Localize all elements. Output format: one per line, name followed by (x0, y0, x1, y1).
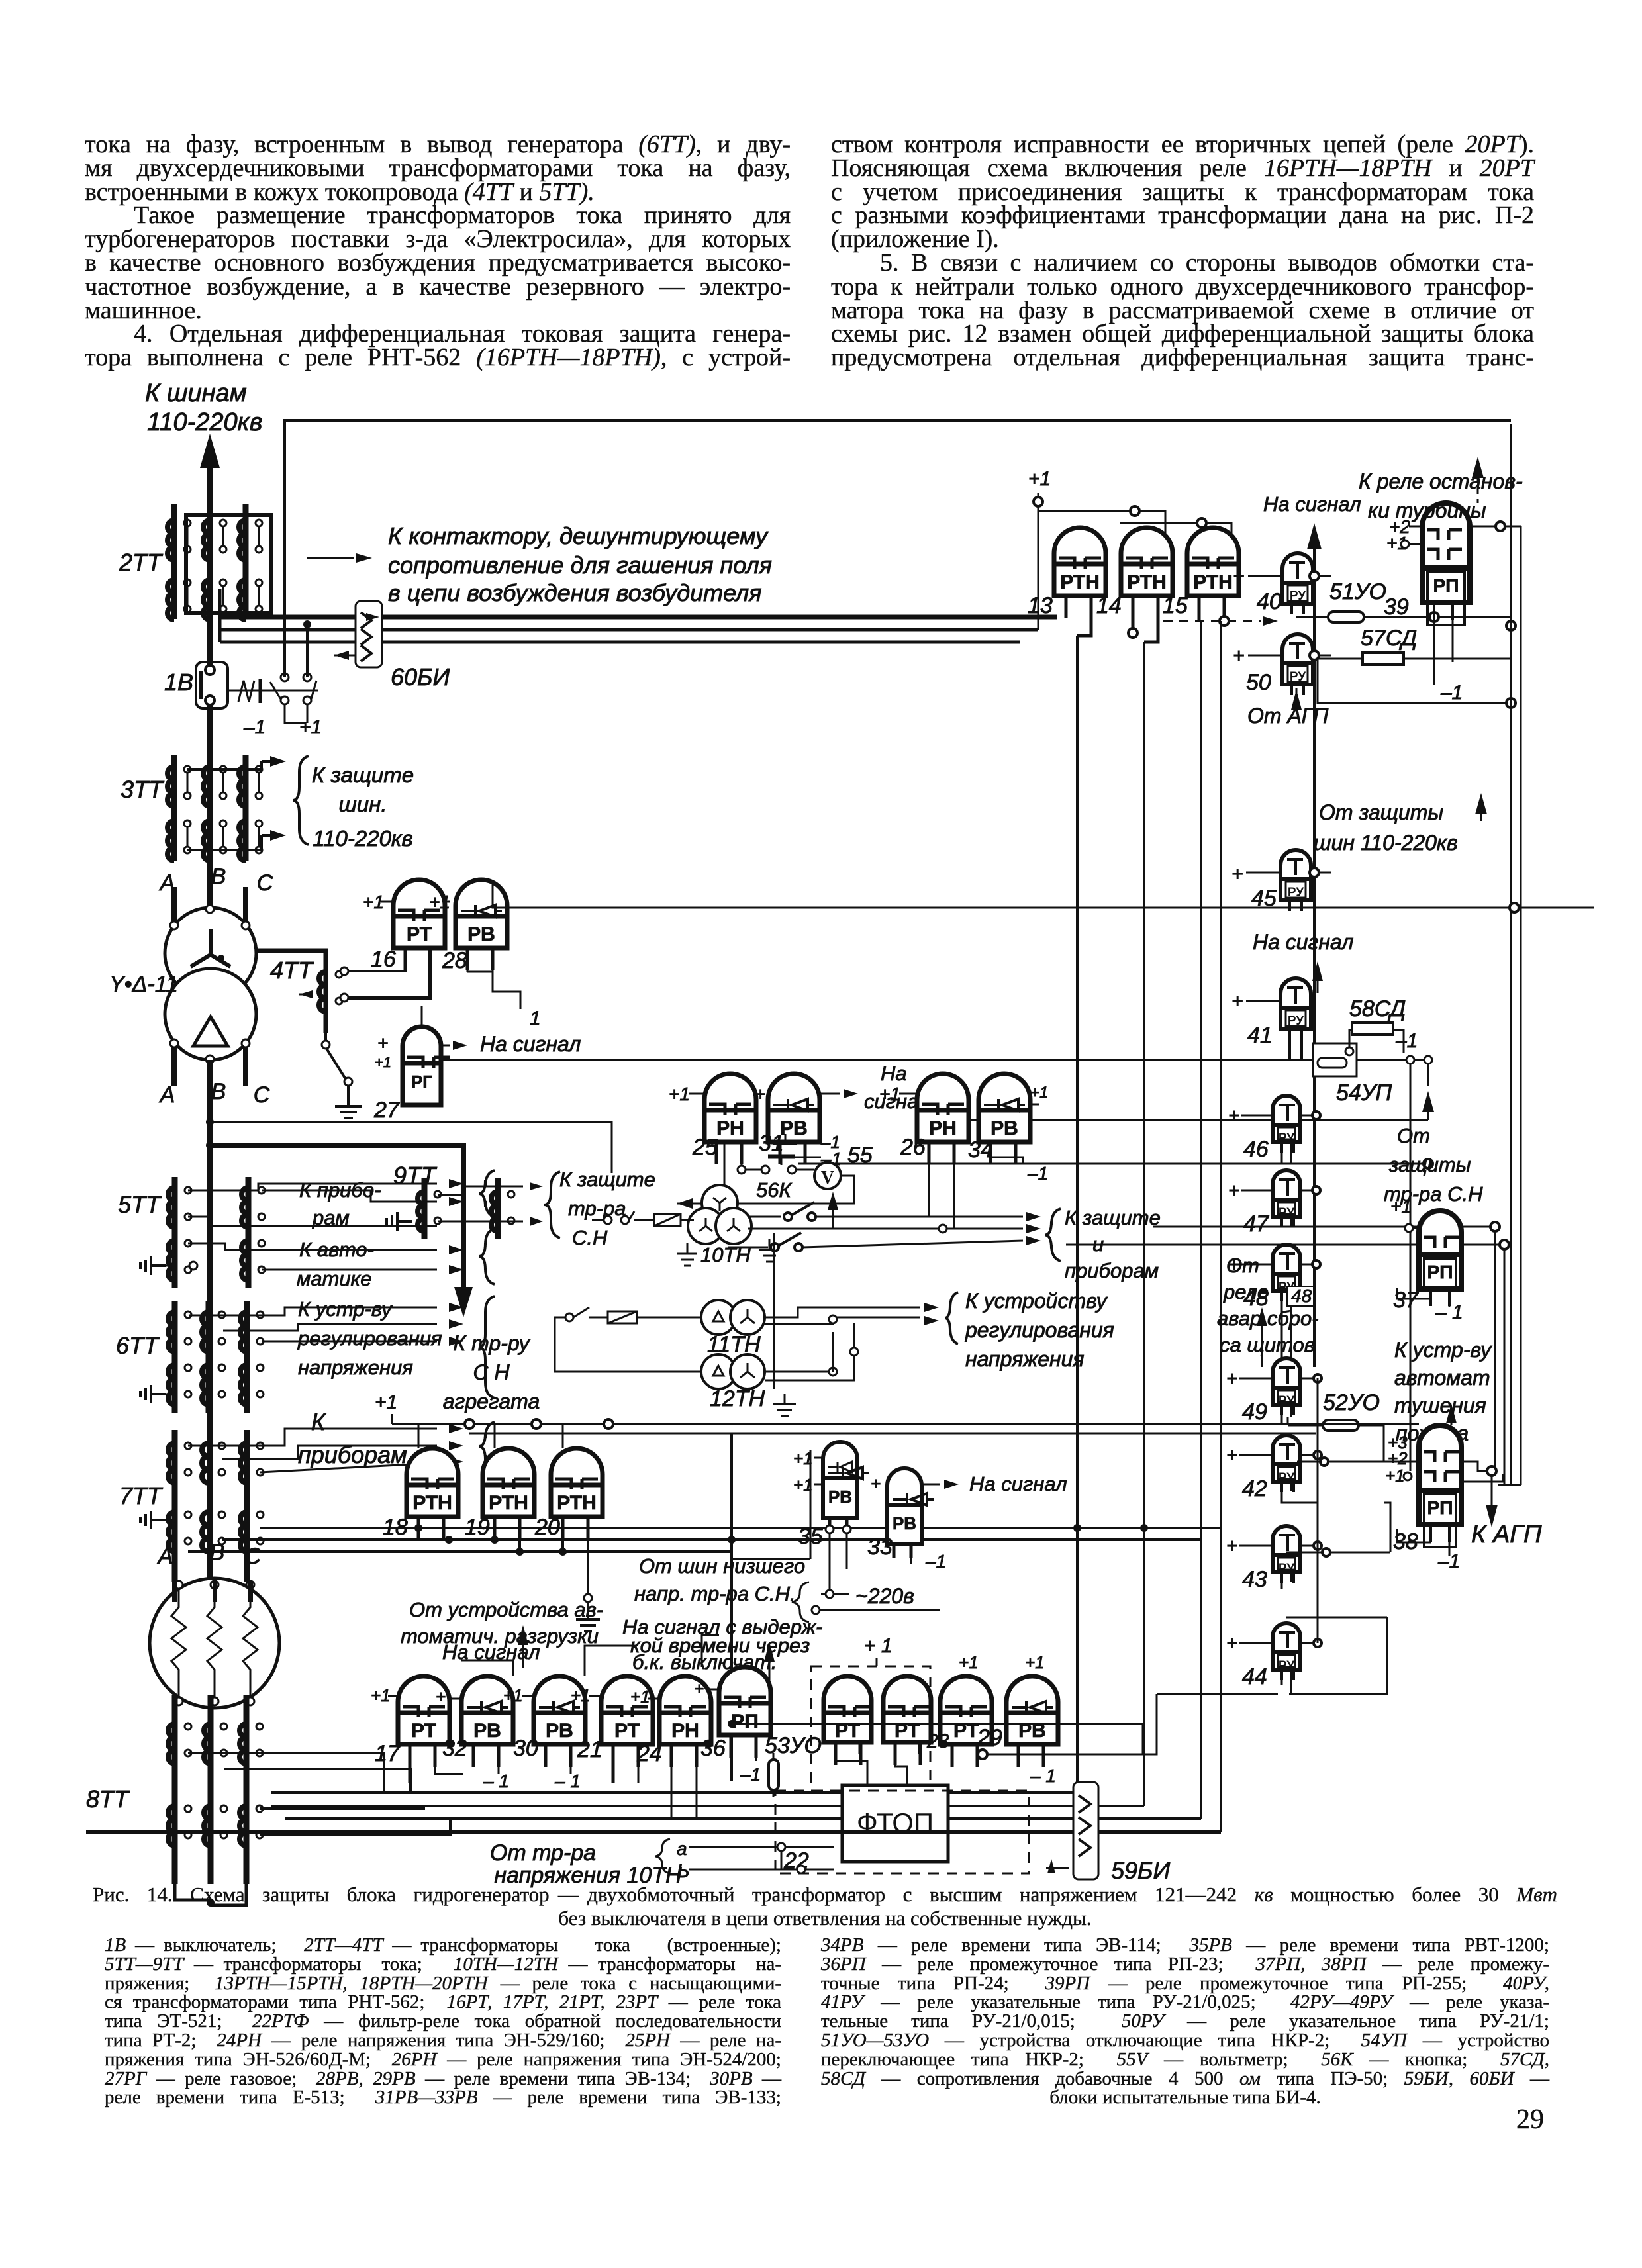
svg-text:РП: РП (1427, 1497, 1453, 1518)
label 6TT (116, 1332, 160, 1359)
label 20 (534, 1515, 560, 1540)
svg-text:тушения: тушения (1394, 1394, 1486, 1417)
relay RU 48 (1273, 1245, 1300, 1301)
svg-text:К прибо-: К прибо- (299, 1178, 381, 1202)
arrow: К АГП down (1486, 1476, 1498, 1527)
svg-text:–1: –1 (1395, 1030, 1418, 1052)
label 12TN (710, 1386, 765, 1411)
label -1 (RP38) (1437, 1550, 1460, 1572)
wire: rail y1371 (1510, 903, 1519, 912)
label: От устройства ав-томатич. разгрузки (401, 1598, 603, 1648)
label: От реле авар сброса щитов (1217, 1254, 1319, 1356)
label: На (сигнал) 33 (969, 1472, 1067, 1495)
relay RN 25 (704, 1074, 756, 1164)
svg-text:+1: +1 (1028, 468, 1051, 490)
label: К АГП (1471, 1521, 1542, 1548)
label 47 (1243, 1211, 1269, 1237)
wire: RN26 legs (929, 1142, 954, 1229)
svg-text:К защите: К защите (559, 1168, 655, 1191)
svg-text:+ 1: + 1 (864, 1635, 893, 1657)
svg-text:напряжения: напряжения (965, 1347, 1085, 1371)
label 10TN (700, 1243, 751, 1266)
svg-text:приборам: приборам (298, 1441, 407, 1468)
svg-text:РВ: РВ (467, 923, 495, 945)
brace: к устр-ву регулирования (479, 1296, 495, 1398)
wire: RV35 box (732, 1450, 810, 1559)
resistor 57SD (1363, 653, 1404, 665)
label + (RU40) (1233, 565, 1331, 587)
svg-text:РУ: РУ (1288, 886, 1304, 900)
brace 220v (792, 1582, 809, 1622)
transformer 11TN (701, 1300, 765, 1335)
label 22 (783, 1848, 809, 1873)
wire: double rail (392, 1419, 1419, 1433)
test block 60BI (356, 601, 382, 667)
label 24 (636, 1741, 662, 1766)
label: К контактору, дешунтирующему (388, 522, 769, 549)
label 50 (1246, 670, 1271, 695)
label 14 (1096, 593, 1122, 618)
wire: RTN14 legs (1128, 596, 1158, 642)
relay RV 31 (768, 1074, 820, 1164)
label 25 (692, 1135, 718, 1160)
label: К защите шин 110-220кв (312, 763, 414, 851)
svg-text:52УО: 52УО (1323, 1390, 1380, 1415)
label +1 (RV34) (1030, 1084, 1048, 1104)
relay RU 46 (1273, 1096, 1300, 1153)
svg-text:РН: РН (671, 1720, 699, 1742)
wire: RU43 legs (1282, 1572, 1291, 1589)
label 33 (867, 1535, 893, 1560)
svg-text:29: 29 (977, 1725, 1002, 1750)
device 54UP (1313, 1030, 1404, 1076)
svg-text:33: 33 (867, 1535, 893, 1560)
relay RTN 18 (407, 1448, 458, 1539)
label: сопротивление для гашения поля (388, 551, 772, 579)
wire: 10TN secondary b (748, 1224, 1041, 1233)
label 51UO (1329, 579, 1386, 604)
relay RN 24 (659, 1676, 711, 1767)
brace: к защите и приборам (1045, 1209, 1061, 1261)
svg-text:48: 48 (1291, 1286, 1312, 1306)
svg-text:+: + (1226, 1535, 1238, 1557)
svg-text:С.Н: С.Н (572, 1226, 608, 1249)
label 5TT (118, 1191, 162, 1218)
label + (RG) (375, 1033, 391, 1070)
label 36 (700, 1736, 726, 1761)
label + (RU48) (1228, 1254, 1320, 1276)
current transformer 2TT (168, 504, 271, 620)
wire: generator phase stubs (175, 1582, 250, 1602)
wire: RV31 to na signal (820, 1089, 858, 1098)
wire: bottom row legs (410, 1744, 756, 1817)
wire: RU44 legs (1282, 1670, 1291, 1694)
label +1 (RT16) (363, 892, 393, 912)
relay RTN 20 (551, 1448, 603, 1539)
relay RT b (22RTF) (883, 1676, 931, 1765)
svg-text:К АГП: К АГП (1471, 1521, 1542, 1548)
wire: RU41 legs to rail (1290, 1029, 1302, 1060)
svg-text:43: 43 (1242, 1567, 1267, 1592)
wire: RN25 legs (724, 1142, 746, 1186)
relay RG 27 (403, 1027, 450, 1105)
wire: 8TT bottom hooks (175, 1884, 246, 1907)
svg-text:РТН: РТН (557, 1492, 597, 1514)
label 43 (1242, 1567, 1267, 1592)
svg-text:8ТТ: 8ТТ (86, 1785, 130, 1813)
arrow: left from 25 (677, 1198, 724, 1209)
wire: na signal rail y1758 (798, 1159, 1433, 1168)
svg-text:В: В (211, 1079, 226, 1104)
wire: RV31 legs (780, 1142, 821, 1157)
brace: к автоматике (479, 1229, 495, 1284)
svg-text:Y•Δ-11: Y•Δ-11 (109, 972, 178, 997)
wire: 52UO row (1288, 1417, 1384, 1462)
svg-text:50: 50 (1246, 670, 1271, 695)
filter-relay 22RTF dashed box (811, 1666, 930, 1791)
svg-text:шин 110-220кв: шин 110-220кв (1314, 831, 1458, 855)
label 32 (442, 1736, 467, 1761)
arrow: от защиты тр-ра (1422, 1091, 1434, 1120)
wire: bottom rails right (948, 1793, 1201, 1819)
label 52UO (1323, 1390, 1380, 1415)
svg-text:На сигнал: На сигнал (969, 1472, 1067, 1495)
wire: HV bus vertical (207, 463, 213, 908)
svg-text:110-220кв: 110-220кв (313, 826, 412, 851)
current transformer 9TT (418, 1178, 543, 1239)
svg-text:44: 44 (1242, 1664, 1267, 1689)
label +1 (rail) (375, 1392, 397, 1424)
relay RU 42 (1273, 1435, 1300, 1492)
svg-text:+: + (1231, 863, 1243, 885)
label 37 (1393, 1288, 1419, 1313)
wire: 29 node (728, 1694, 1157, 1759)
svg-text:13: 13 (1028, 593, 1053, 618)
label +1 row (371, 1679, 704, 1707)
resistor 58SD (1352, 1023, 1393, 1035)
label: К прибо-рам (299, 1178, 381, 1229)
label +1 (RN25) (669, 1084, 704, 1104)
relay RT 23 (940, 1676, 992, 1767)
wire: trio y932 (220, 615, 1057, 620)
label 23 (926, 1730, 949, 1752)
label 26 (900, 1135, 926, 1160)
svg-text:шин.: шин. (338, 792, 387, 816)
svg-text:30: 30 (513, 1736, 538, 1761)
arrow: на сигнал 41 (1312, 961, 1323, 993)
svg-text:регулирования: регулирования (965, 1318, 1114, 1342)
svg-text:2ТТ: 2ТТ (119, 549, 164, 576)
svg-text:К шинам: К шинам (145, 379, 247, 407)
wire: от защиты шин arrow (1475, 793, 1487, 821)
label ~220v (855, 1584, 914, 1608)
label + (RU50) (1233, 645, 1331, 667)
wire: RV28 right leg (467, 948, 520, 1009)
wire: RTN18 legs (414, 1517, 456, 1544)
wire: long vertical x1814 (1200, 621, 1202, 1819)
label 39 (wire) (1384, 594, 1409, 620)
svg-text:К устр-ву: К устр-ву (1394, 1338, 1492, 1362)
svg-text:16: 16 (371, 947, 396, 972)
brace: к защите тр-ра СН (544, 1172, 560, 1238)
node at 60BI (303, 620, 311, 628)
svg-text:От шин низшего: От шин низшего (639, 1554, 805, 1578)
label: К защите и приборам (1065, 1206, 1161, 1282)
label +1 (RN26) (879, 1084, 917, 1104)
wire: RTN14 top loop (1120, 518, 1231, 564)
arrow 59BI (1046, 1859, 1069, 1873)
wire: 7TT secondary3 (188, 1550, 732, 1553)
wire: rail y1880 (1066, 1244, 1419, 1246)
relay RV 28 (456, 880, 507, 970)
svg-text:РУ: РУ (1290, 589, 1306, 603)
transformer phase stubs bottom (170, 1039, 250, 1086)
relay RT 16 (393, 880, 445, 970)
wire: rail y2443 (1286, 1617, 1387, 1619)
device FTOP (842, 1785, 948, 1862)
label 3TT (121, 776, 165, 803)
label: К приборам (7TT) (298, 1408, 407, 1468)
relay RP 37 (1419, 1211, 1461, 1306)
svg-text:41: 41 (1247, 1023, 1273, 1048)
svg-text:РТН: РТН (412, 1492, 452, 1514)
svg-text:–1: –1 (243, 716, 266, 738)
label: К устр-ву автомат тушения (37) (1394, 1338, 1492, 1445)
svg-text:–1: –1 (740, 1764, 761, 1785)
svg-text:40: 40 (1257, 589, 1282, 614)
label -1 (RP39) (1440, 682, 1463, 704)
svg-text:От АГП: От АГП (1247, 704, 1329, 728)
svg-text:+: + (1233, 645, 1245, 667)
switch to 10TN (592, 1211, 694, 1226)
label: От тр-ра напряжения 10ТН (490, 1840, 682, 1888)
label: На сигнал (31) (864, 1062, 930, 1113)
label: К устройству регулирования напряжения (2) (965, 1289, 1114, 1371)
label +1 (RP37) (1390, 1196, 1419, 1232)
svg-text:На сигнал: На сигнал (1253, 930, 1353, 954)
label 7TT (119, 1482, 164, 1509)
label: К реле останов- ки турбины (1359, 469, 1523, 522)
label -1 (55) (773, 1132, 840, 1152)
svg-text:–1: –1 (925, 1551, 946, 1572)
svg-text:РТН: РТН (1127, 571, 1167, 593)
label + (RU41) (1231, 990, 1280, 1012)
svg-text:+: + (1226, 1368, 1238, 1390)
svg-text:24: 24 (636, 1741, 662, 1766)
label +1 (22RTF) (864, 1635, 893, 1666)
relay RU 43 (1273, 1526, 1300, 1583)
label 46 (1243, 1137, 1269, 1162)
wire: voltmeter loop (720, 1176, 854, 1207)
svg-text:Ь: Ь (677, 1860, 690, 1882)
svg-text:РТН: РТН (1060, 571, 1100, 593)
svg-text:+1: +1 (1030, 1084, 1048, 1102)
wire: row tops (461, 1635, 719, 1676)
svg-text:– 1: – 1 (554, 1771, 581, 1791)
fuse 51UO (1320, 612, 1372, 622)
svg-text:32: 32 (442, 1736, 467, 1761)
ground (12TN) (773, 1394, 796, 1416)
wire: RV33 to na signal (922, 1480, 959, 1489)
label 59BI (1111, 1857, 1170, 1884)
arrow: bus to 110-220kV buses (200, 434, 220, 470)
wire: long rail y1695 (206, 1118, 1428, 1173)
svg-text:45: 45 (1251, 886, 1277, 911)
svg-text:тр-ра: тр-ра (568, 1197, 626, 1220)
wire: right verticals top (1510, 424, 1512, 1486)
wire: trio y970 (220, 589, 1020, 642)
wire: long vertical x1844 (1220, 621, 1222, 1832)
contact -1 (270, 673, 306, 723)
svg-text:54УП: 54УП (1336, 1080, 1392, 1106)
svg-text:6ТТ: 6ТТ (116, 1332, 160, 1359)
wire: RU43 out (1300, 1542, 1322, 1550)
svg-text:26: 26 (900, 1135, 926, 1160)
current transformer 4TT (319, 971, 342, 1047)
label +1 (1B) (299, 716, 322, 738)
wire: RU44 out (1300, 1639, 1322, 1647)
wire: RP39 legs down (1434, 602, 1453, 685)
relay RU 44 (1273, 1623, 1300, 1680)
wire: 51UO row (1296, 612, 1516, 630)
svg-text:+: + (1233, 565, 1245, 587)
svg-text:РВ: РВ (893, 1513, 916, 1533)
svg-text:55: 55 (847, 1143, 873, 1168)
wire: 10TN secondary (748, 1202, 1041, 1221)
wire: RV34 legs (990, 1142, 1023, 1164)
relay RTN 14 (1121, 528, 1173, 618)
dashed box 22 (775, 1791, 1029, 1873)
svg-text:+1: +1 (299, 716, 322, 738)
label +3+2+1 (RP38) (1385, 1433, 1412, 1486)
relay RT 21 (601, 1676, 653, 1767)
svg-text:1В: 1В (164, 669, 193, 696)
label: От защиты тр-ра СН (1384, 1124, 1483, 1205)
svg-text:+1: +1 (375, 1392, 397, 1413)
wire: RP38 contacts (1461, 1462, 1521, 1485)
svg-text:На сигнал: На сигнал (1263, 493, 1361, 516)
wire: rail y2208 (1297, 1458, 1419, 1466)
wire: 3TT outputs (187, 756, 286, 850)
breaker 1B (196, 619, 228, 908)
svg-text:+1: +1 (1385, 1466, 1405, 1486)
svg-text:~220в: ~220в (855, 1584, 914, 1608)
label + (RU47) (1228, 1180, 1320, 1202)
relay RP 39 (1422, 503, 1470, 625)
relay RP 38 (1419, 1425, 1461, 1547)
svg-text:5ТТ: 5ТТ (118, 1191, 162, 1218)
svg-text:+1: +1 (571, 1685, 591, 1705)
label 53UO (765, 1733, 822, 1758)
label -1 (58SD) (1395, 1030, 1418, 1052)
label 18 (383, 1515, 408, 1540)
label 1 (RV28 leg) (530, 1008, 541, 1029)
ground (RTN legs) (576, 1594, 600, 1631)
svg-text:К защите: К защите (312, 763, 414, 787)
svg-text:21: 21 (577, 1737, 603, 1762)
svg-text:РУ: РУ (1290, 670, 1306, 684)
relay RT 17 (398, 1676, 450, 1767)
label + (RU42) (1226, 1444, 1273, 1466)
current transformer 7TT upper (168, 1424, 463, 1582)
svg-text:От тр-ра: От тр-ра (490, 1840, 596, 1866)
spring symbol M (238, 679, 260, 703)
label a b (655, 1838, 690, 1882)
current transformer 3TT (168, 755, 262, 861)
relay RTN 13 (1054, 528, 1106, 618)
arrow: RP38 up (1446, 1403, 1457, 1425)
wire: vertical x1990 (1317, 1378, 1319, 1643)
svg-text:+1: +1 (375, 1054, 391, 1070)
relay RV 29 (1006, 1676, 1058, 1767)
svg-text:напр. тр-ра С.Н.: напр. тр-ра С.Н. (634, 1582, 796, 1605)
wire: RP38 legs (1397, 1525, 1449, 1556)
svg-text:РП: РП (1427, 1262, 1453, 1282)
label: К устр-ву регулирования напряжения (297, 1298, 442, 1379)
label +1 (RV28) (429, 892, 450, 912)
label + (RU44) (1226, 1632, 1273, 1654)
wire: 7TT secondary to RTN (260, 1524, 1221, 1532)
label 58SD (1349, 996, 1406, 1021)
label: К защите тр-ра СН (559, 1168, 655, 1249)
svg-text:57СД: 57СД (1361, 626, 1417, 651)
svg-text:39: 39 (1384, 594, 1409, 620)
generator (150, 1578, 279, 1708)
svg-text:56К: 56К (756, 1178, 792, 1202)
arrow: к тр-ру СН (454, 1287, 473, 1317)
relay RU 47 (1273, 1170, 1300, 1227)
svg-text:+1: +1 (1025, 1652, 1045, 1672)
label 38 (1393, 1529, 1418, 1554)
svg-text:– 1: – 1 (1030, 1766, 1056, 1786)
ground (5TT) (140, 1256, 197, 1275)
label +1 (RTN13) (1028, 468, 1051, 490)
svg-text:и: и (1092, 1233, 1104, 1256)
svg-text:а: а (677, 1838, 687, 1859)
relay RV 33 (887, 1468, 934, 1558)
svg-text:РВ: РВ (990, 1117, 1018, 1139)
svg-text:На сигнал: На сигнал (480, 1032, 581, 1056)
svg-text:РВ: РВ (780, 1117, 808, 1139)
wire: RU49 out (1300, 1374, 1322, 1382)
wire: RU42 out (1300, 1451, 1322, 1459)
svg-text:защиты: защиты (1388, 1153, 1471, 1176)
wire: RP39 contact right (1470, 522, 1521, 531)
svg-text:+: + (755, 1084, 765, 1104)
svg-text:РТ: РТ (407, 923, 432, 945)
svg-text:–1: –1 (820, 1132, 840, 1152)
wire: thick tap to SN (206, 1141, 463, 1291)
svg-text:11ТН: 11ТН (707, 1332, 761, 1357)
relay RV 30 (534, 1676, 585, 1767)
arrow: от АГП up (1291, 688, 1302, 710)
current transformer 5TT (168, 1177, 463, 1288)
svg-text:–1: –1 (1027, 1163, 1048, 1184)
wire: long vertical x1728 (1143, 642, 1145, 1806)
wire: RU48 legs (1282, 1291, 1291, 1367)
svg-text:РВ: РВ (828, 1487, 852, 1507)
wire: rail y1853 (1153, 1226, 1419, 1228)
brace: к приборам (7TT) (479, 1422, 495, 1471)
label: phases A B C (top) (159, 864, 273, 896)
arrow: на сигнал (left) (518, 1625, 528, 1668)
arrow up (10TN) (828, 1192, 838, 1229)
svg-text:36: 36 (700, 1736, 726, 1761)
svg-text:От: От (1397, 1124, 1430, 1147)
wire: top rail y635 (285, 420, 1511, 677)
svg-text:+1: +1 (630, 1687, 650, 1707)
svg-text:РУ: РУ (1288, 1014, 1304, 1028)
